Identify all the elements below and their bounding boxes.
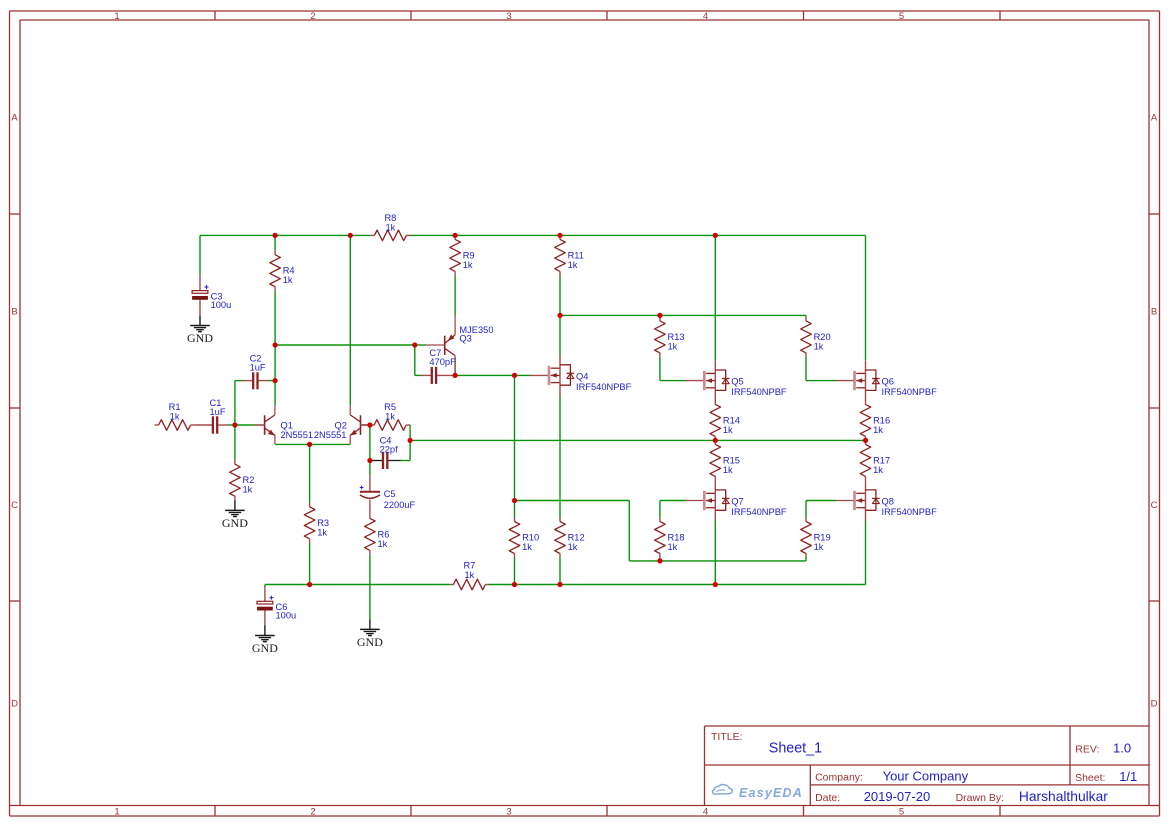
svg-text:2200uF: 2200uF	[384, 500, 416, 510]
svg-text:R8: R8	[384, 213, 396, 223]
svg-text:R20: R20	[814, 332, 831, 342]
svg-text:IRF540NPBF: IRF540NPBF	[882, 507, 938, 517]
svg-text:A: A	[11, 112, 18, 123]
svg-text:1uF: 1uF	[250, 362, 266, 372]
svg-text:R1: R1	[169, 402, 181, 412]
svg-text:2: 2	[310, 11, 315, 22]
svg-text:R4: R4	[283, 266, 295, 276]
svg-text:22pf: 22pf	[380, 445, 399, 455]
svg-text:R12: R12	[568, 533, 585, 543]
svg-text:R7: R7	[463, 561, 475, 571]
svg-text:B: B	[1151, 306, 1157, 317]
svg-text:C: C	[11, 500, 18, 511]
svg-text:1k: 1k	[723, 425, 733, 435]
svg-text:IRF540NPBF: IRF540NPBF	[731, 507, 787, 517]
svg-text:GND: GND	[222, 516, 248, 530]
svg-text:IRF540NPBF: IRF540NPBF	[576, 382, 632, 392]
svg-text:1k: 1k	[385, 222, 395, 232]
svg-text:2: 2	[310, 806, 315, 817]
svg-text:1: 1	[114, 11, 119, 22]
svg-text:Q1: Q1	[281, 421, 293, 431]
svg-text:A: A	[1151, 112, 1158, 123]
svg-text:Sheet:: Sheet:	[1075, 772, 1105, 784]
svg-text:R10: R10	[522, 533, 539, 543]
svg-text:1k: 1k	[814, 542, 824, 552]
svg-text:1k: 1k	[283, 275, 293, 285]
svg-text:1k: 1k	[243, 485, 253, 495]
svg-text:1.0: 1.0	[1113, 741, 1131, 756]
svg-text:Q6: Q6	[882, 377, 894, 387]
svg-text:Date:: Date:	[815, 792, 840, 804]
svg-text:Drawn By:: Drawn By:	[956, 792, 1004, 804]
svg-text:R11: R11	[568, 250, 584, 260]
svg-text:R18: R18	[668, 533, 685, 543]
svg-text:3: 3	[506, 806, 511, 817]
svg-text:R14: R14	[723, 415, 740, 425]
svg-text:B: B	[11, 306, 17, 317]
svg-text:5: 5	[899, 806, 904, 817]
svg-text:1k: 1k	[463, 260, 473, 270]
svg-text:D: D	[1151, 699, 1158, 710]
svg-text:R15: R15	[723, 455, 740, 465]
svg-text:GND: GND	[357, 635, 383, 649]
svg-text:R16: R16	[873, 415, 890, 425]
svg-text:GND: GND	[252, 641, 278, 655]
svg-text:Harshalthulkar: Harshalthulkar	[1019, 789, 1108, 804]
svg-text:C5: C5	[384, 489, 396, 499]
svg-text:Q2: Q2	[335, 421, 347, 431]
svg-text:Your Company: Your Company	[883, 769, 969, 784]
svg-text:100u: 100u	[211, 300, 232, 310]
svg-text:Q4: Q4	[576, 371, 588, 381]
svg-text:R9: R9	[463, 250, 475, 260]
svg-text:1k: 1k	[378, 539, 388, 549]
svg-text:IRF540NPBF: IRF540NPBF	[731, 387, 787, 397]
svg-text:4: 4	[703, 11, 708, 22]
svg-text:R6: R6	[378, 529, 390, 539]
svg-text:1k: 1k	[568, 260, 578, 270]
svg-text:Company:: Company:	[815, 772, 863, 784]
svg-text:R2: R2	[243, 475, 255, 485]
svg-text:D: D	[11, 699, 18, 710]
svg-text:R17: R17	[873, 455, 890, 465]
svg-text:REV:: REV:	[1075, 744, 1099, 756]
svg-text:4: 4	[703, 806, 708, 817]
svg-text:1k: 1k	[668, 542, 678, 552]
svg-text:1/1: 1/1	[1119, 769, 1137, 784]
svg-text:470pF: 470pF	[429, 357, 456, 367]
svg-text:C: C	[1151, 500, 1158, 511]
svg-text:1k: 1k	[568, 542, 578, 552]
svg-text:Sheet_1: Sheet_1	[769, 741, 822, 757]
svg-text:1k: 1k	[814, 341, 824, 351]
svg-text:1k: 1k	[723, 465, 733, 475]
svg-text:R3: R3	[317, 518, 329, 528]
svg-text:1k: 1k	[170, 412, 180, 422]
svg-text:1k: 1k	[385, 412, 395, 422]
svg-text:Q3: Q3	[459, 334, 471, 344]
svg-text:5: 5	[899, 11, 904, 22]
svg-text:TITLE:: TITLE:	[711, 731, 743, 743]
svg-text:Q8: Q8	[882, 497, 894, 507]
svg-text:Q7: Q7	[731, 497, 743, 507]
svg-text:1: 1	[114, 806, 119, 817]
svg-text:R19: R19	[814, 533, 831, 543]
svg-text:1k: 1k	[317, 527, 327, 537]
svg-text:3: 3	[506, 11, 511, 22]
svg-text:1k: 1k	[873, 465, 883, 475]
svg-text:2019-07-20: 2019-07-20	[864, 789, 931, 804]
svg-text:1k: 1k	[464, 570, 474, 580]
svg-text:2N5551: 2N5551	[281, 430, 314, 440]
svg-text:1uF: 1uF	[210, 407, 226, 417]
svg-text:100u: 100u	[276, 611, 297, 621]
svg-text:1k: 1k	[522, 542, 532, 552]
svg-text:GND: GND	[187, 331, 213, 345]
svg-text:R5: R5	[384, 402, 396, 412]
svg-text:2N5551: 2N5551	[314, 430, 347, 440]
svg-text:1k: 1k	[668, 341, 678, 351]
svg-text:EasyEDA: EasyEDA	[739, 786, 803, 800]
svg-text:IRF540NPBF: IRF540NPBF	[882, 387, 938, 397]
svg-text:1k: 1k	[873, 425, 883, 435]
svg-text:Q5: Q5	[731, 377, 743, 387]
svg-text:R13: R13	[668, 332, 685, 342]
